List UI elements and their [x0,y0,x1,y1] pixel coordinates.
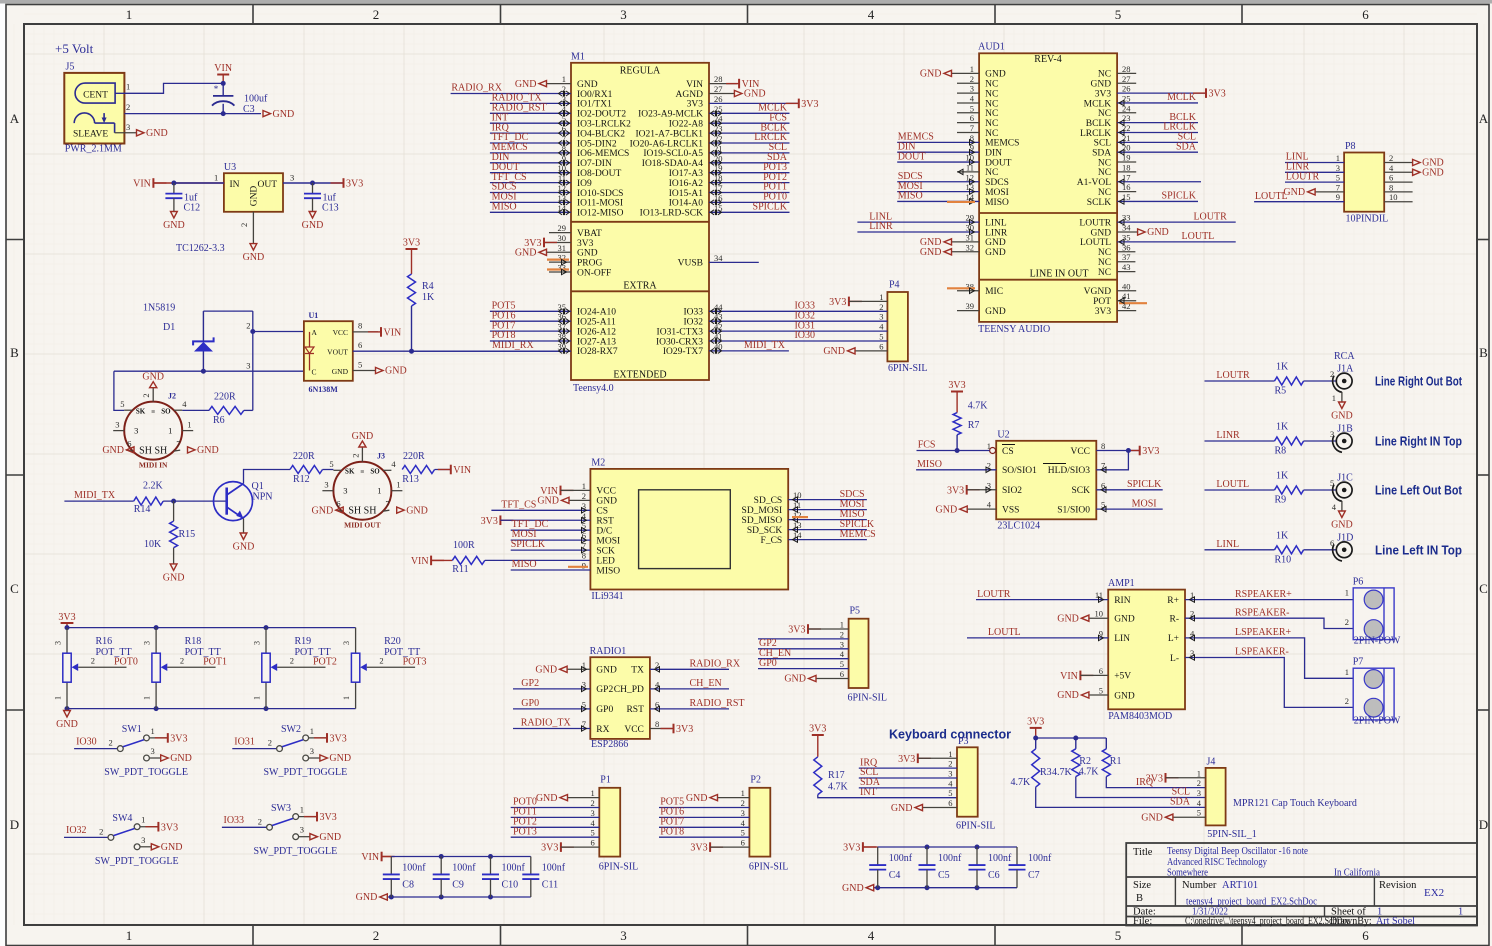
wire J2 pin4 to R6 [182,409,209,411]
wire VIN to U3 pin1 [153,182,224,184]
diode D1 1N5819 [193,311,253,371]
svg-text:MEMCS: MEMCS [985,139,1019,149]
svg-text:SK: SK [345,468,355,476]
svg-text:2: 2 [1389,153,1393,163]
svg-text:POT2: POT2 [313,656,337,667]
svg-text:IO32: IO32 [66,825,87,836]
capacitor C4 100nf [869,847,913,888]
svg-text:MISO: MISO [985,198,1009,208]
svg-text:GND: GND [920,247,942,258]
gnd port R15 [163,564,185,584]
junction cap rail [439,854,444,859]
svg-text:LOUTL: LOUTL [1255,191,1288,202]
svg-text:IO31-CTX3: IO31-CTX3 [657,327,704,337]
svg-text:6: 6 [840,669,844,679]
svg-text:VCC: VCC [596,487,616,497]
svg-text:3: 3 [310,746,314,756]
svg-text:SDA: SDA [1092,149,1111,159]
title block [1126,843,1477,927]
svg-text:6: 6 [1099,666,1103,676]
svg-text:C5: C5 [938,870,950,881]
svg-text:GND: GND [273,109,295,120]
svg-text:GND: GND [142,372,164,383]
svg-text:A: A [10,111,20,126]
svg-text:C13: C13 [322,202,339,213]
svg-text:GND: GND [535,665,557,676]
svg-text:5: 5 [1336,173,1340,183]
power port VIN AMP1 [1060,671,1108,682]
wire R17 to INT [818,787,957,798]
svg-text:3V3: 3V3 [403,238,420,249]
gnd port AUD1 pin31 [920,237,979,248]
svg-text:3V3: 3V3 [690,843,707,854]
svg-text:6: 6 [948,798,952,808]
svg-text:7: 7 [1336,182,1340,192]
svg-text:4: 4 [182,399,187,409]
svg-text:100uf: 100uf [244,94,268,105]
svg-text:3: 3 [134,426,138,436]
svg-text:3V3: 3V3 [1095,89,1112,99]
svg-text:8: 8 [1389,182,1393,192]
wire/net GP2 to P5 [758,638,849,649]
svg-text:5: 5 [591,828,595,838]
svg-text:SPICLK: SPICLK [1127,479,1162,490]
svg-text:3V3: 3V3 [947,485,964,496]
svg-text:1: 1 [741,788,745,798]
junction cap rail [925,845,930,850]
svg-text:MCLK: MCLK [1084,99,1112,109]
svg-text:5: 5 [1115,928,1122,943]
junction bottom rail R16 [65,706,70,711]
svg-text:R4: R4 [422,281,434,292]
gnd port pots [56,711,78,731]
svg-text:2: 2 [126,102,130,112]
svg-text:GND: GND [161,842,183,853]
svg-text:5: 5 [1099,686,1103,696]
svg-text:7: 7 [385,499,389,509]
junction bottom rail R18 [154,706,159,711]
wire J1C gnd [1332,501,1342,512]
wire J5 pin3 [115,132,137,134]
svg-text:1: 1 [151,726,155,736]
svg-text:1: 1 [562,74,566,84]
power port 3V3 pots [58,612,75,628]
wire/net POT5 to P2 [659,797,749,808]
svg-text:≡: ≡ [151,408,155,416]
power port VIN top [214,63,232,83]
svg-text:2: 2 [1345,617,1349,627]
svg-text:GND: GND [1057,613,1079,624]
svg-text:6: 6 [127,439,131,449]
wire U1 VCC to VIN [353,331,378,333]
svg-text:J1C: J1C [1337,473,1353,484]
svg-text:100nf: 100nf [1028,853,1052,864]
svg-text:1K: 1K [1276,471,1289,482]
resistor R3 4.7K [1011,738,1073,788]
svg-text:RADIO_RX: RADIO_RX [690,659,741,670]
svg-text:R20: R20 [384,636,401,647]
svg-text:IO15-A1: IO15-A1 [669,189,704,199]
svg-text:3V3: 3V3 [541,843,558,854]
svg-text:P7: P7 [1353,657,1364,668]
svg-text:2: 2 [91,656,95,666]
svg-text:C10: C10 [502,879,519,890]
wire/net LINR to AUD1 [857,221,979,235]
IC U2 23LC1024 [987,429,1106,531]
svg-text:NC: NC [985,89,998,99]
svg-text:3V3: 3V3 [676,724,693,735]
svg-text:M1: M1 [571,52,585,63]
svg-text:SH SH: SH SH [348,506,376,517]
wire/net SPICLK from AUD1 SCLK [1117,191,1198,205]
AUD1 pin16 NC stub [1117,191,1136,193]
svg-text:100R: 100R [453,540,475,551]
svg-text:6PIN-SIL: 6PIN-SIL [956,821,995,832]
svg-text:2: 2 [373,928,380,943]
svg-text:NC: NC [985,119,998,129]
svg-text:INT: INT [860,787,877,798]
svg-text:VIN: VIN [686,80,703,90]
svg-text:GND: GND [332,367,349,376]
svg-text:LINR: LINR [1216,430,1240,441]
power port 3V3 J4 pullups [1027,716,1044,738]
svg-text:SO: SO [161,408,171,416]
wire/net MEMCS to AUD1 [897,132,979,146]
svg-text:R18: R18 [185,636,202,647]
capacitor C5 100nf [919,847,963,888]
wire/net RADIO_RST to M1 pin 4 [490,103,571,117]
svg-text:IO13-LRD-SCK: IO13-LRD-SCK [640,209,703,219]
svg-text:3V3: 3V3 [687,100,704,110]
svg-text:26: 26 [714,94,723,104]
svg-text:NC: NC [1098,168,1111,178]
svg-text:SDCS: SDCS [985,178,1009,188]
svg-text:IO12-MISO: IO12-MISO [577,209,624,219]
svg-text:FCS: FCS [918,440,936,451]
wire/net GP0 to P5 [758,658,849,669]
svg-text:R15: R15 [179,529,196,540]
svg-text:J3: J3 [377,452,385,461]
svg-text:5: 5 [948,788,952,798]
svg-text:GND: GND [1331,520,1353,531]
wire/net MISO to U2 [916,459,996,473]
svg-text:SCLK: SCLK [1087,198,1111,208]
svg-text:1: 1 [377,486,381,496]
svg-text:Revision: Revision [1379,880,1417,891]
svg-text:A: A [312,328,318,337]
svg-text:41: 41 [1122,291,1131,301]
rca jack J1D [1330,532,1353,561]
svg-text:SW_PDT_TOGGLE: SW_PDT_TOGGLE [95,856,179,867]
svg-text:IO20-A6-LRCLK1: IO20-A6-LRCLK1 [630,139,704,149]
svg-text:GP0: GP0 [596,705,613,715]
svg-text:MOSI: MOSI [596,536,620,546]
svg-text:4: 4 [868,7,875,22]
svg-text:GND: GND [842,883,864,894]
connector P8 10PINDIL [1336,141,1398,225]
svg-text:3V3: 3V3 [1146,773,1163,784]
svg-text:9: 9 [1336,192,1340,202]
svg-text:Number: Number [1182,880,1217,891]
wire VIN to R11 [431,559,452,561]
svg-text:Size: Size [1133,880,1151,891]
svg-text:B: B [10,345,19,360]
gnd port J2 pin6 [102,445,134,456]
svg-text:GND: GND [985,70,1006,80]
svg-text:1K: 1K [1276,362,1289,373]
switch SW2 SW_PDT_TOGGLE [232,724,351,778]
svg-text:220R: 220R [214,392,236,403]
svg-text:6N138M: 6N138M [309,385,339,394]
svg-text:DIN: DIN [985,149,1002,159]
svg-text:VOUT: VOUT [327,348,348,357]
svg-text:2: 2 [290,656,294,666]
connector P3 6PIN-SIL keyboard [948,736,995,832]
svg-text:VGND: VGND [1084,287,1112,297]
wire/net POT5 to M1 pin 35 [490,301,571,315]
wire/net TFT_DC to M2 D/C [511,519,591,533]
wire/net TFT_CS to M2 CS [491,499,590,513]
power port VIN for U3 [133,178,166,189]
svg-text:MIDI IN: MIDI IN [139,461,168,470]
svg-text:3V3: 3V3 [577,239,594,249]
wire/net RSPEAKER- [1185,607,1353,628]
svg-text:9: 9 [582,561,586,571]
svg-text:SDA: SDA [1176,141,1197,152]
svg-text:TC1262-3.3: TC1262-3.3 [176,243,225,254]
svg-text:IO22-A8: IO22-A8 [669,120,704,130]
svg-text:3: 3 [290,173,294,183]
svg-text:4: 4 [591,818,596,828]
svg-text:5: 5 [1115,7,1122,22]
wire/net POT2 to P1 [511,817,600,828]
svg-text:A: A [1479,111,1489,126]
svg-text:IO9: IO9 [577,179,592,189]
gnd port U2 VSS [936,504,997,515]
svg-text:3: 3 [246,360,250,370]
junction top rail R19 [264,625,269,630]
capacitor C12 1uf [165,183,200,213]
wire Q1 emitter [243,519,245,534]
IC M1 Teensy4.0 body [571,52,709,394]
switch SW3 SW_PDT_TOGGLE [222,803,341,857]
svg-text:IO14-A0: IO14-A0 [669,199,704,209]
svg-text:GP2: GP2 [596,685,613,695]
connector P2 6PIN-SIL [741,774,789,872]
wire/net LINR to R8 [1205,430,1275,441]
svg-text:3V3: 3V3 [829,297,846,308]
svg-text:2: 2 [350,453,360,457]
svg-text:M2: M2 [591,457,605,468]
svg-text:1: 1 [253,696,262,700]
svg-text:100nf: 100nf [988,853,1012,864]
svg-text:Title: Title [1133,847,1153,858]
wire/net POT6 to M1 pin 36 [490,310,571,324]
wire P8 pin6 [1384,181,1412,183]
wire/net LINL to P8 [1285,152,1344,163]
svg-text:3V3: 3V3 [948,380,965,391]
svg-text:1: 1 [126,928,133,943]
wire/net LOUTL to AMP1 LIN [967,627,1108,641]
svg-text:3: 3 [342,641,351,645]
gnd port P3 pin6 [891,803,957,814]
svg-text:NC: NC [985,129,998,139]
svg-text:15: 15 [1122,192,1131,202]
svg-text:C7: C7 [1028,870,1040,881]
svg-text:33: 33 [1122,213,1131,223]
svg-text:6: 6 [1362,928,1369,943]
wire/net POT8 to P2 [659,826,749,837]
wire U3 pin3 to 3V3 [283,182,344,184]
gnd port U1 pin5 [376,366,407,377]
wire/net SPICLK from M1 pin 15 [709,202,790,216]
svg-text:RADIO1: RADIO1 [590,646,627,657]
svg-text:A1-VOL: A1-VOL [1077,178,1111,188]
wire R13 to VIN [435,469,451,471]
wire/net SDA from AUD1 [1117,141,1198,155]
svg-text:100nf: 100nf [542,862,566,873]
svg-text:2: 2 [970,74,974,84]
svg-text:POT3: POT3 [403,656,427,667]
svg-text:NC: NC [985,80,998,90]
svg-text:NC: NC [1098,109,1111,119]
svg-text:100nf: 100nf [889,853,913,864]
svg-text:CH_EN: CH_EN [690,678,722,689]
svg-text:U1: U1 [309,311,319,320]
svg-text:3: 3 [1330,429,1334,439]
gnd port M1 pin1 [515,79,571,90]
svg-text:GND: GND [170,753,192,764]
svg-text:VBAT: VBAT [577,229,602,239]
svg-text:GND: GND [515,79,537,90]
svg-text:3V3: 3V3 [58,612,75,623]
svg-text:VIN: VIN [361,852,379,863]
svg-text:3V3: 3V3 [1095,307,1112,317]
svg-text:10PINDIL: 10PINDIL [1346,214,1389,225]
wire MIDI_RX to M1 pin39 [412,348,572,354]
wire pot bottom rail [67,708,356,710]
svg-text:C12: C12 [184,202,201,213]
svg-text:SIO2: SIO2 [1002,486,1022,496]
svg-text:43: 43 [1122,262,1131,272]
power port 3V3 P2 pin6 [690,842,749,853]
svg-text:SW4: SW4 [112,813,132,824]
svg-text:5: 5 [970,103,974,113]
AUD1 top section pin names [966,64,1132,208]
power port 3V3 J4 pin1 [1146,773,1206,784]
svg-text:LINR: LINR [869,221,893,232]
wire/net MEMCS to M1 pin 8 [490,142,571,156]
svg-text:39: 39 [966,301,975,311]
svg-text:1K: 1K [422,292,435,303]
svg-text:IO25-A11: IO25-A11 [577,318,616,328]
svg-text:2: 2 [1330,369,1334,379]
connector P6 2PIN-POW [1345,576,1401,646]
svg-text:J4: J4 [1207,756,1216,767]
svg-text:31: 31 [558,243,567,253]
svg-text:GND: GND [1331,411,1353,422]
svg-text:GP0: GP0 [521,698,539,709]
svg-text:GND: GND [515,248,537,259]
wire/net POT7 to M1 pin 37 [490,320,571,334]
svg-text:3V3: 3V3 [788,625,805,636]
svg-text:GND: GND [1091,80,1112,90]
power port VIN caprow [361,852,394,863]
svg-text:34: 34 [714,253,723,263]
svg-text:B: B [1136,893,1143,904]
wire R11 to M2 LED [485,559,591,561]
svg-text:D: D [10,817,19,832]
svg-text:IO23-A9-MCLK: IO23-A9-MCLK [638,110,703,120]
svg-text:P3: P3 [958,736,969,747]
svg-text:3: 3 [840,639,844,649]
wire down-left to J2 pin5 [114,371,124,410]
svg-text:MIDI_TX: MIDI_TX [744,340,786,351]
wire R14 to Q1 base [163,500,226,502]
svg-text:L+: L+ [1168,634,1179,644]
resistor R12 220R [290,451,323,485]
svg-text:S1/SIO0: S1/SIO0 [1057,505,1090,515]
wire/net IO30 M1 to P4 [709,330,887,344]
gnd port P5 pin6 [784,674,848,685]
svg-text:GND: GND [985,307,1006,317]
svg-text:GND: GND [163,220,185,231]
wire/net SCL from M1 pin 21 [709,142,790,156]
svg-text:LINE IN OUT: LINE IN OUT [1030,269,1089,280]
wire/net IO33 M1 to P4 [709,301,887,315]
svg-text:1: 1 [948,749,952,759]
wire U1 VOUT / MIDI_RX [353,350,571,352]
junction VIN/C12 [171,181,176,186]
svg-text:1N5819: 1N5819 [143,303,175,314]
svg-text:1: 1 [840,620,844,630]
svg-text:1: 1 [396,480,400,490]
svg-text:R-: R- [1170,615,1180,625]
svg-text:R10: R10 [1275,554,1292,565]
svg-text:LOUTR: LOUTR [977,589,1011,600]
svg-text:VIN: VIN [133,179,151,190]
wire U2 VCC to 3V3 [1096,446,1159,457]
wire/net MCLK from AUD1 [1117,92,1198,106]
svg-text:GND: GND [596,666,617,676]
svg-text:3: 3 [126,122,130,132]
rca jack J1C [1330,473,1353,502]
svg-text:GND: GND [577,249,598,259]
svg-text:VIN: VIN [453,465,471,476]
wire R9 to J1C [1304,489,1337,491]
svg-text:MOSI: MOSI [1132,498,1157,509]
svg-text:U2: U2 [997,429,1009,440]
svg-text:IO3-LRCLK2: IO3-LRCLK2 [577,120,631,130]
wire/net SPICLK to M2 SCK [511,539,591,553]
svg-text:3V3: 3V3 [801,99,818,110]
wire/net SCL R2 to J4 [1076,777,1206,798]
wire/net CH_EN to P5 [758,648,849,659]
svg-text:J1B: J1B [1337,424,1353,435]
gnd port J1C [1331,511,1353,531]
wire R4 to VOUT line [411,306,413,351]
svg-text:27: 27 [1122,74,1131,84]
wire AUD1 3V3 pin26 [1117,88,1226,99]
AUD1 POT stub no-connect [1117,298,1147,303]
switch SW4 SW_PDT_TOGGLE [64,813,182,867]
svg-text:2: 2 [246,321,250,331]
svg-text:GND: GND [1114,691,1135,701]
wire/net MEMCS from M2 F_CS [788,529,876,543]
svg-text:30: 30 [558,233,567,243]
capacitor C8 100nf [383,857,427,898]
svg-text:5: 5 [1330,478,1334,488]
